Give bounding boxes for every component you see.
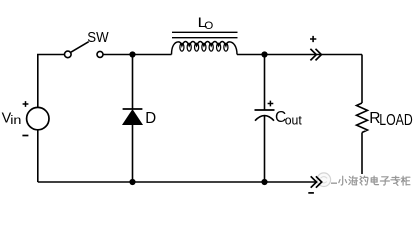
wire right vertical top	[361, 55, 363, 104]
hanzi dian	[371, 176, 378, 185]
svg-text:out: out	[285, 113, 303, 127]
arrow output bottom	[311, 176, 322, 187]
svg-text:SW: SW	[87, 29, 108, 46]
resistor RLOAD	[357, 103, 368, 133]
wire diode branch bottom	[132, 124, 134, 182]
watermark dash	[331, 182, 337, 184]
capacitor Cout top plate	[255, 109, 275, 111]
inductor LO core bars	[172, 32, 238, 37]
wire top segment 2	[103, 54, 172, 56]
node junction bottom diode	[129, 179, 135, 185]
svg-text:in: in	[10, 113, 21, 127]
watermark text (grey hanzi drawn as paths)	[339, 176, 410, 185]
hanzi zi	[380, 177, 389, 185]
polarity plus Cout	[268, 101, 274, 107]
wire top segment 3	[237, 54, 362, 56]
hanzi gui	[401, 176, 410, 185]
switch SW	[65, 42, 104, 58]
hanzi bao	[360, 176, 368, 185]
svg-text:LOAD: LOAD	[379, 111, 412, 129]
hanzi hai	[349, 176, 358, 185]
diode D triangle	[123, 110, 142, 125]
wire diode branch top	[132, 55, 134, 110]
node junction top diode	[129, 51, 135, 57]
arrow output top	[310, 49, 321, 61]
inductor LO coil	[172, 42, 238, 55]
svg-text:O: O	[204, 20, 213, 32]
wire capacitor branch bottom	[264, 116, 266, 182]
watermark logo	[317, 173, 331, 187]
hanzi zhuan	[391, 176, 400, 185]
wire left vertical bottom	[37, 130, 39, 182]
wire top segment 1	[38, 54, 65, 56]
watermark white backing	[322, 174, 418, 192]
node junction top capacitor	[261, 51, 267, 57]
voltage source Vin	[27, 107, 49, 129]
polarity plus output top	[310, 36, 316, 42]
polarity minus Vin	[22, 135, 28, 137]
hanzi xiao	[339, 176, 347, 185]
capacitor Cout curved plate	[255, 116, 274, 121]
diode D cathode bar	[123, 108, 143, 110]
wire bottom segment	[38, 181, 322, 183]
svg-text:D: D	[145, 110, 156, 127]
wire right vertical bottom	[361, 133, 363, 176]
node junction bottom capacitor	[261, 179, 267, 185]
polarity plus Vin	[23, 101, 29, 107]
wire capacitor branch top	[264, 55, 266, 111]
wire left vertical top	[37, 55, 39, 108]
polarity minus output bottom	[308, 192, 314, 194]
